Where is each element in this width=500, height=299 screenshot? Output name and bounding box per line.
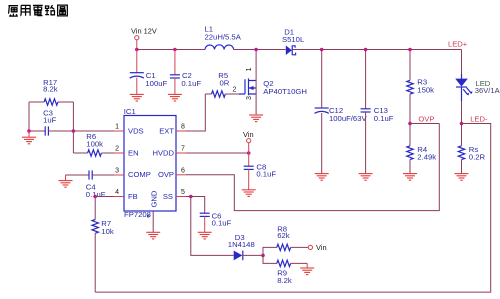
svg-text:FB: FB <box>128 192 138 201</box>
svg-text:FP7208: FP7208 <box>124 210 151 219</box>
ground Rs <box>455 174 469 181</box>
pin 1 stub <box>114 130 124 132</box>
wire OVP node row <box>410 123 439 125</box>
junction FB corner <box>93 195 97 199</box>
svg-text:AP40T10GH: AP40T10GH <box>263 87 307 96</box>
svg-text:S510L: S510L <box>282 35 305 44</box>
svg-text:0.1uF: 0.1uF <box>212 219 232 228</box>
capacitor C4 <box>66 170 115 199</box>
svg-text:0.1uF: 0.1uF <box>256 169 276 178</box>
svg-text:7: 7 <box>181 146 185 153</box>
svg-text:SS: SS <box>163 192 173 201</box>
op-amp IC1 FP7208 body <box>124 107 176 219</box>
ground IC GND pin <box>146 211 160 239</box>
junction VDS node <box>72 129 76 133</box>
title 應用電路圖 <box>8 5 67 16</box>
inductor L1 <box>205 25 242 50</box>
wire Q2 drain/source column <box>255 50 257 116</box>
ground C13 <box>359 174 373 181</box>
svg-text:Vin 12V: Vin 12V <box>131 27 157 36</box>
svg-text:1: 1 <box>246 67 253 71</box>
pin 3 stub <box>114 174 124 176</box>
svg-text:EXT: EXT <box>159 126 174 135</box>
svg-text:1N4148: 1N4148 <box>228 240 255 249</box>
wire FB net <box>95 197 114 220</box>
junction D3 node <box>261 254 265 258</box>
ground C6 <box>198 232 212 239</box>
svg-text:0.1uF: 0.1uF <box>374 114 394 123</box>
ground C1 <box>130 94 144 101</box>
svg-text:6: 6 <box>181 167 185 174</box>
wire top rail <box>137 49 462 51</box>
svg-text:3: 3 <box>115 167 119 174</box>
junction HVDD node <box>247 151 251 155</box>
svg-text:150k: 150k <box>417 85 434 94</box>
junction LED- node <box>460 122 464 126</box>
wire R17 side verticals <box>29 102 73 131</box>
transistor Q2 <box>239 67 307 100</box>
svg-text:OVP: OVP <box>158 170 174 179</box>
diode D1 <box>282 27 305 55</box>
junction Q2 rail <box>254 48 258 52</box>
svg-text:36V/1A: 36V/1A <box>475 86 500 95</box>
svg-text:8.2k: 8.2k <box>277 276 292 285</box>
svg-text:HVDD: HVDD <box>152 148 174 157</box>
resistor R5 <box>205 71 239 97</box>
svg-text:0.2R: 0.2R <box>469 153 486 162</box>
svg-text:Vin: Vin <box>316 243 327 252</box>
svg-text:2.49k: 2.49k <box>417 153 436 162</box>
pin 5 stub <box>176 196 186 198</box>
pin 7 stub <box>176 152 186 154</box>
svg-text:22uH/5.5A: 22uH/5.5A <box>205 32 242 41</box>
resistor R4 <box>407 124 436 174</box>
junction Vin rail <box>135 48 139 52</box>
pin 2 stub <box>114 152 124 154</box>
svg-text:100uF: 100uF <box>145 79 167 88</box>
resistor R8 <box>263 225 308 256</box>
wire down to R6 row <box>72 131 74 153</box>
svg-text:5: 5 <box>181 189 185 196</box>
wire HVDD net <box>186 152 249 154</box>
junction SS node <box>189 195 193 199</box>
svg-text:100k: 100k <box>86 139 103 148</box>
resistor R3 <box>407 50 434 124</box>
capacitor C2 <box>170 50 201 95</box>
capacitor C1 <box>130 50 168 95</box>
wire SS to D3 <box>191 197 234 256</box>
svg-text:VDS: VDS <box>128 126 144 135</box>
junction C3 left <box>27 129 31 133</box>
resistor R6 <box>73 132 114 156</box>
junction C13 rail <box>364 48 368 52</box>
svg-text:OVP: OVP <box>418 114 434 123</box>
capacitor C12 <box>315 50 368 174</box>
svg-text:100uF/63V: 100uF/63V <box>329 114 367 123</box>
pin 6 stub <box>176 174 186 176</box>
pin 8 stub <box>176 130 186 132</box>
ground C12 <box>315 174 329 181</box>
svg-text:0R: 0R <box>220 78 230 87</box>
svg-text:10k: 10k <box>101 227 114 236</box>
wire SS net <box>186 197 205 214</box>
svg-text:1uF: 1uF <box>43 115 57 124</box>
svg-text:COMP: COMP <box>128 170 151 179</box>
svg-text:GND: GND <box>150 190 159 207</box>
svg-text:Vin: Vin <box>243 130 254 139</box>
svg-text:LED-: LED- <box>470 114 488 123</box>
junction C2 rail <box>173 48 177 52</box>
svg-text:EN: EN <box>128 148 139 157</box>
wire LED- return to bottom rail <box>95 124 491 293</box>
LED D2 <box>455 50 500 124</box>
node Vin terminal (R8) <box>308 243 326 252</box>
ground R9 <box>300 263 314 274</box>
ground C4 <box>59 175 73 187</box>
node Vin 12V terminal <box>131 27 157 50</box>
wire OVP route to pin 6 <box>186 124 439 211</box>
capacitor C13 <box>361 50 394 174</box>
junction R3 rail <box>408 48 412 52</box>
wire C3 to VDS pin 1 <box>73 130 114 132</box>
svg-text:2: 2 <box>233 87 237 94</box>
wire EXT to R5 <box>186 94 205 131</box>
node Vin terminal (HVDD) <box>243 130 254 153</box>
ground Q2 source <box>249 115 263 122</box>
pin 4 stub <box>114 196 124 198</box>
capacitor C3 <box>29 108 73 135</box>
ground C8 <box>242 190 256 197</box>
svg-text:IC1: IC1 <box>124 107 136 116</box>
svg-text:LED+: LED+ <box>448 39 468 48</box>
junction C12 rail <box>320 48 324 52</box>
svg-text:4: 4 <box>115 189 119 196</box>
capacitor C8 <box>244 153 277 190</box>
svg-text:8.2k: 8.2k <box>43 84 58 93</box>
ground C3 <box>22 131 36 144</box>
ground C2 <box>168 94 182 101</box>
svg-text:8: 8 <box>181 124 185 131</box>
resistor R17 <box>29 78 73 105</box>
svg-text:3: 3 <box>246 96 253 100</box>
diode D3 <box>228 233 263 260</box>
ground R4 <box>403 174 417 181</box>
resistor R9 <box>263 255 307 284</box>
capacitor C6 <box>200 211 232 232</box>
svg-text:0.1uF: 0.1uF <box>181 79 201 88</box>
svg-text:62k: 62k <box>277 231 290 240</box>
svg-text:2: 2 <box>115 146 119 153</box>
resistor Rs <box>458 124 485 174</box>
svg-text:1: 1 <box>115 124 119 131</box>
junction OVP node <box>408 122 412 126</box>
resistor R7 <box>92 219 114 292</box>
